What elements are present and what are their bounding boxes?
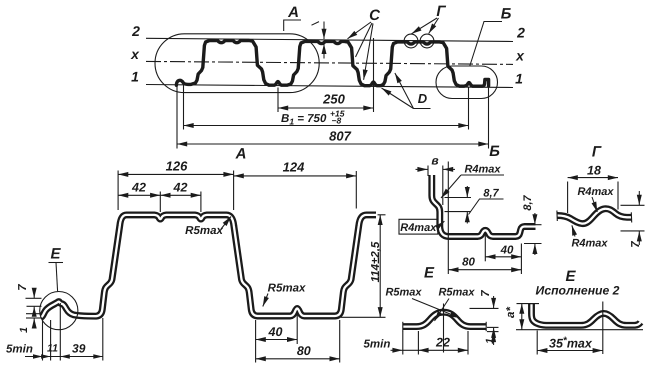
- svg-text:35*max: 35*max: [549, 336, 593, 351]
- svg-text:D: D: [418, 91, 428, 106]
- center line E: [443, 304, 445, 353]
- svg-text:1: 1: [18, 327, 30, 333]
- svg-text:1: 1: [484, 338, 496, 344]
- svg-text:R5max: R5max: [438, 287, 475, 299]
- svg-text:Исполнение 2: Исполнение 2: [536, 284, 620, 298]
- svg-text:R5max: R5max: [385, 287, 422, 299]
- dim 1 left: [26, 313, 42, 315]
- sheet detail B: [432, 175, 536, 237]
- dim 42 left: [159, 192, 161, 213]
- svg-text:7: 7: [630, 241, 642, 248]
- svg-text:R5max: R5max: [185, 225, 223, 237]
- circle E on detail A: [40, 292, 78, 330]
- svg-text:А: А: [287, 4, 299, 21]
- svg-text:Г: Г: [592, 144, 602, 161]
- callout B top: [470, 22, 502, 66]
- dim 126: [117, 171, 119, 211]
- sheet detail Г: [558, 209, 632, 224]
- svg-text:124: 124: [283, 160, 305, 175]
- svg-text:x: x: [515, 48, 525, 64]
- svg-text:40: 40: [500, 245, 514, 257]
- svg-text:Б: Б: [489, 143, 500, 160]
- thickness dimension t: [312, 22, 320, 26]
- svg-text:8,7: 8,7: [483, 188, 499, 200]
- detail ellipse B: [436, 66, 498, 99]
- dim 7 E: [470, 307, 499, 309]
- svg-text:Б: Б: [501, 6, 512, 23]
- dim 18: [567, 182, 569, 214]
- dim 807: [176, 86, 178, 149]
- lip top tick E2: [529, 303, 535, 305]
- svg-text:114±2,5: 114±2,5: [370, 241, 382, 282]
- svg-text:2: 2: [516, 25, 525, 41]
- label R4max boxed: [399, 219, 438, 234]
- svg-text:R4max: R4max: [464, 164, 501, 176]
- dim 124: [355, 171, 357, 209]
- svg-text:40: 40: [268, 325, 283, 339]
- svg-text:42: 42: [131, 180, 146, 194]
- svg-text:R4max: R4max: [400, 222, 437, 234]
- dim 80 bottom: [339, 320, 341, 363]
- dim 7 left: [26, 297, 42, 299]
- level line 1: [146, 85, 513, 88]
- svg-text:11: 11: [47, 343, 58, 355]
- svg-text:в: в: [431, 154, 438, 168]
- svg-text:80: 80: [462, 257, 475, 269]
- svg-text:22: 22: [435, 336, 450, 350]
- dims 5min 22 E: [402, 331, 404, 355]
- dim 80 detail B: [448, 269, 521, 271]
- svg-text:1: 1: [131, 69, 139, 85]
- sheet detail A core: [41, 215, 376, 317]
- svg-text:В1 = 750: В1 = 750: [281, 113, 327, 127]
- extension for 80: [447, 162, 449, 275]
- svg-text:1: 1: [515, 71, 523, 87]
- svg-text:Г: Г: [436, 3, 446, 20]
- detail ellipse A: [155, 34, 319, 93]
- level line x (neutral axis): [146, 61, 513, 64]
- end ticks E: [402, 322, 404, 331]
- svg-text:x: x: [130, 46, 140, 62]
- svg-text:С: С: [369, 7, 381, 24]
- sheet detail E: [403, 312, 486, 326]
- svg-text:18: 18: [587, 163, 601, 177]
- svg-text:80: 80: [297, 344, 311, 358]
- svg-text:2: 2: [131, 23, 140, 39]
- end ticks Г: [556, 211, 558, 222]
- svg-text:А: А: [235, 146, 247, 163]
- svg-text:807: 807: [329, 129, 351, 144]
- svg-text:5min: 5min: [6, 344, 33, 356]
- svg-text:5min: 5min: [364, 339, 391, 351]
- dim 250: [277, 88, 279, 113]
- svg-text:Е: Е: [424, 265, 435, 282]
- svg-text:7: 7: [480, 290, 492, 297]
- svg-text:126: 126: [166, 159, 188, 174]
- svg-text:Е: Е: [50, 246, 61, 263]
- level line 2: [146, 38, 513, 41]
- dim 35max: [536, 331, 538, 355]
- dim B1=750: [183, 81, 185, 130]
- svg-text:7: 7: [17, 284, 29, 291]
- svg-text:R5max: R5max: [268, 283, 306, 295]
- svg-text:8,7: 8,7: [522, 194, 534, 210]
- svg-text:250: 250: [322, 92, 345, 107]
- dim 1 E: [487, 331, 499, 333]
- baseline E2: [516, 329, 643, 331]
- dim 40 bottom: [296, 312, 298, 344]
- svg-text:R4max: R4max: [577, 186, 614, 198]
- dim 7 Г: [621, 204, 645, 206]
- sheet detail E2: [532, 304, 641, 326]
- svg-text:−8: −8: [332, 116, 342, 126]
- svg-text:39: 39: [72, 342, 86, 356]
- dim 40 detail B: [484, 233, 486, 261]
- sheet profile cross-section (thick): [176, 41, 488, 87]
- sheet detail A outer: [41, 215, 376, 317]
- svg-text:Е: Е: [565, 268, 576, 285]
- dim 8,7 middle: [445, 197, 472, 199]
- svg-text:a*: a*: [505, 307, 517, 318]
- callout A: [284, 20, 301, 31]
- dims 5min 11 39: [42, 320, 44, 361]
- center line E2: [602, 302, 604, 355]
- svg-text:R4max: R4max: [571, 238, 608, 250]
- dim 114: [378, 214, 386, 216]
- dim a*: [517, 303, 540, 305]
- svg-text:42: 42: [173, 180, 188, 194]
- dim 42 right: [160, 194, 201, 196]
